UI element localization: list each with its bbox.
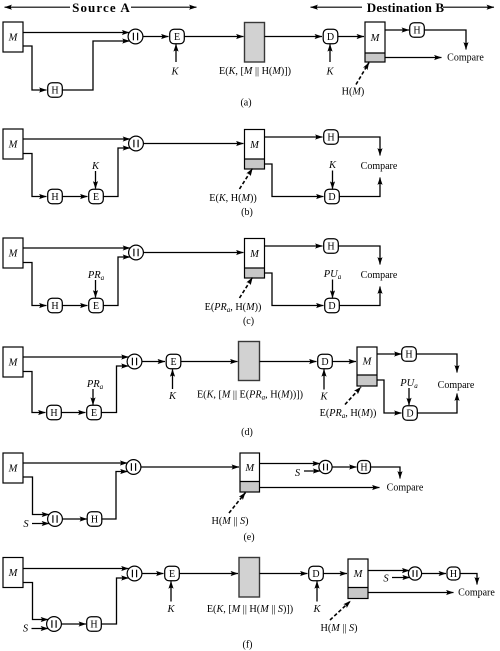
svg-text:Compare: Compare xyxy=(361,161,398,172)
wire concat to H (e) xyxy=(332,466,356,468)
svg-text:E: E xyxy=(170,357,176,368)
svg-text:D: D xyxy=(328,301,335,312)
wire H up to concat (e) xyxy=(102,472,128,520)
sign function E source (d) xyxy=(87,405,102,420)
svg-text:D: D xyxy=(321,357,328,368)
wire key to E (c) xyxy=(95,280,97,298)
wire K to D (a) xyxy=(329,44,331,62)
concatenation node upper (e) xyxy=(126,460,141,475)
svg-text:Destination B: Destination B xyxy=(367,0,445,15)
ciphertext block (f) xyxy=(239,558,260,598)
svg-text:H: H xyxy=(450,569,457,580)
svg-text:H: H xyxy=(413,25,420,36)
svg-text:E: E xyxy=(174,32,180,43)
wire E up to concat (b) xyxy=(103,148,130,197)
wire K to D (f) xyxy=(316,581,318,601)
wire H to compare (e) xyxy=(371,467,400,479)
wire M down to H (d) xyxy=(23,372,46,413)
wire M destination to H (d) xyxy=(377,353,402,355)
svg-text:K: K xyxy=(91,161,100,172)
wire ciphertext to D (a) xyxy=(265,36,323,38)
hash function H destination (c) xyxy=(324,239,339,254)
box M source (d) xyxy=(3,347,23,377)
box M destination with MAC field (c) xyxy=(245,239,265,279)
hash function H source (f) xyxy=(87,617,102,632)
decrypt function D destination (c) xyxy=(325,298,340,313)
svg-text:PRa: PRa xyxy=(86,379,104,391)
svg-text:Compare: Compare xyxy=(361,270,398,281)
concatenation node (c) xyxy=(129,245,144,260)
svg-text:E(K, [M || H(M || S)]): E(K, [M || H(M || S)]) xyxy=(207,604,293,615)
svg-text:H(M): H(M) xyxy=(342,87,365,98)
wire K to E (d) xyxy=(172,369,174,389)
wire H up to concat (a) xyxy=(62,41,130,90)
wire M destination to concat (e) xyxy=(260,463,320,465)
svg-text:Source A: Source A xyxy=(72,0,131,15)
wire E up to concat (c) xyxy=(103,257,130,306)
svg-text:M: M xyxy=(370,33,381,44)
svg-text:(a): (a) xyxy=(240,98,251,109)
svg-text:E(K, [M || H(M)]): E(K, [M || H(M)]) xyxy=(219,66,291,77)
box M destination with MAC field (b) xyxy=(245,130,265,170)
concatenation node destination (f) xyxy=(408,567,421,580)
concatenation node upper (f) xyxy=(127,566,142,581)
wire S to concat (e) xyxy=(304,470,320,472)
wire concat to M destination (e) xyxy=(141,466,240,468)
decrypt function D destination (b) xyxy=(325,189,340,204)
wire M to concat top (b) xyxy=(23,138,130,140)
wire hash field to compare (e) xyxy=(260,487,380,489)
wire M destination to H (a) xyxy=(385,29,409,31)
wire M down to concat (e) xyxy=(23,477,49,515)
box M source (f) xyxy=(3,558,23,588)
wire H to compare (a) xyxy=(424,30,466,50)
wire M destination to H (c) xyxy=(265,245,323,247)
svg-text:(b): (b) xyxy=(241,207,253,218)
svg-text:D: D xyxy=(312,569,319,580)
wire M down to H (c) xyxy=(23,263,47,306)
svg-text:M: M xyxy=(249,249,260,260)
wire H to compare (c) xyxy=(338,246,380,265)
svg-text:H: H xyxy=(51,192,58,203)
wire E up to concat (d) xyxy=(101,366,129,413)
wire M to concat top (c) xyxy=(23,247,130,249)
svg-text:PUa: PUa xyxy=(323,269,342,281)
header span arrow Source A xyxy=(5,6,197,8)
svg-text:M: M xyxy=(8,568,19,579)
wire MAC field to D (b) xyxy=(265,164,324,197)
wire H up to concat (f) xyxy=(101,578,129,624)
ciphertext block (d) xyxy=(239,342,260,381)
wire K to D (d) xyxy=(323,369,325,389)
svg-text:M: M xyxy=(8,358,19,369)
wire ciphertext to D (d) xyxy=(260,361,317,363)
svg-text:D: D xyxy=(328,192,335,203)
hash function H destination (e) xyxy=(358,461,371,474)
encrypt function E source (c) xyxy=(89,298,104,313)
hash function H source (c) xyxy=(48,298,63,313)
encrypt function E (f) xyxy=(165,566,180,581)
wire K to E (a) xyxy=(175,44,177,62)
header span arrow Destination B xyxy=(311,6,495,8)
svg-text:E: E xyxy=(93,192,99,203)
concatenation node lower (e) xyxy=(48,512,63,527)
wire hash field to compare (f) xyxy=(368,592,454,594)
wire M down to H (a) xyxy=(23,46,47,90)
svg-text:K: K xyxy=(312,604,321,615)
wire M down to H (b) xyxy=(23,154,47,197)
svg-text:M: M xyxy=(353,569,364,580)
encrypt function E outer (d) xyxy=(166,354,181,369)
box M source (a) xyxy=(3,22,23,52)
wire S to concat (e) xyxy=(32,523,49,525)
decrypt function D (d) xyxy=(318,354,333,369)
encrypt function E (a) xyxy=(170,29,185,44)
svg-text:M: M xyxy=(362,357,373,368)
svg-text:H: H xyxy=(327,132,334,143)
wire concat to E (a) xyxy=(143,36,169,38)
svg-text:E: E xyxy=(169,569,175,580)
wire E to ciphertext block (f) xyxy=(179,573,238,575)
wire key to D (c) xyxy=(332,280,334,298)
svg-text:E(PRa, H(M)): E(PRa, H(M)) xyxy=(205,302,262,314)
svg-text:M: M xyxy=(8,33,19,44)
encrypt function E source (b) xyxy=(89,189,104,204)
svg-text:(f): (f) xyxy=(243,640,253,651)
wire S to concat (f) xyxy=(32,628,49,630)
svg-text:(e): (e) xyxy=(243,532,254,543)
svg-text:K: K xyxy=(168,391,177,402)
svg-text:K: K xyxy=(325,67,334,78)
wire concat to M destination (b) xyxy=(143,143,244,145)
wire M destination to concat (f) xyxy=(368,570,409,572)
box M source (e) xyxy=(3,453,23,483)
dashed pointer to MAC field (c) xyxy=(240,278,253,299)
wire H to E (c) xyxy=(62,305,88,307)
box M destination with hash field (e) xyxy=(240,453,260,492)
svg-text:D: D xyxy=(406,408,413,419)
svg-text:M: M xyxy=(244,463,255,474)
svg-text:M: M xyxy=(8,464,19,475)
svg-text:H: H xyxy=(91,514,98,525)
concatenation node (a) xyxy=(128,29,143,44)
wire M to concat top (f) xyxy=(23,568,129,570)
concatenation node (b) xyxy=(129,136,144,151)
wire concat to H (e) xyxy=(62,518,87,520)
wire concat to E (f) xyxy=(142,573,164,575)
box M source (b) xyxy=(3,129,23,159)
wire key to D (b) xyxy=(332,171,334,189)
wire hash field to compare (a) xyxy=(385,57,442,59)
svg-text:Compare: Compare xyxy=(458,588,495,599)
svg-text:S: S xyxy=(23,624,29,635)
svg-text:K: K xyxy=(328,160,337,171)
wire key to E (b) xyxy=(95,171,97,189)
wire MAC field to D (c) xyxy=(265,273,324,306)
svg-text:(c): (c) xyxy=(243,316,254,327)
hash function H source (a) xyxy=(48,83,63,98)
wire E to ciphertext block (a) xyxy=(184,36,244,38)
hash function H destination (f) xyxy=(447,567,460,580)
svg-text:M: M xyxy=(8,140,19,151)
wire D to M destination (f) xyxy=(323,573,347,575)
svg-text:H: H xyxy=(51,85,58,96)
svg-text:H: H xyxy=(360,462,367,473)
wire H to compare (f) xyxy=(460,574,477,585)
dashed pointer to MAC field (b) xyxy=(240,169,253,190)
wire H to compare (b) xyxy=(338,137,380,156)
wire D to M destination (d) xyxy=(332,361,356,363)
svg-text:K: K xyxy=(166,604,175,615)
box M destination with hash field (a) xyxy=(365,22,385,62)
wire E to ciphertext block (d) xyxy=(181,361,238,363)
wire PRa to E (d) xyxy=(92,389,94,405)
svg-text:E: E xyxy=(91,408,97,419)
hash function H destination (b) xyxy=(324,130,339,145)
svg-text:K: K xyxy=(319,392,328,403)
svg-text:E(PRa, H(M)): E(PRa, H(M)) xyxy=(320,408,377,420)
wire PUa to D (d) xyxy=(408,388,410,405)
ciphertext block (a) xyxy=(245,23,265,63)
wire D to compare (c) xyxy=(339,287,380,306)
wire M destination to H (b) xyxy=(265,136,323,138)
wire M to concat top (d) xyxy=(23,356,129,358)
svg-text:S: S xyxy=(23,519,29,530)
wire concat to H (f) xyxy=(61,623,86,625)
svg-text:S: S xyxy=(295,468,301,479)
svg-text:K: K xyxy=(170,67,179,78)
svg-text:Compare: Compare xyxy=(438,380,475,391)
hash function H source (d) xyxy=(47,405,62,420)
svg-text:H(M || S): H(M || S) xyxy=(212,516,249,527)
wire M down to concat (f) xyxy=(23,583,48,620)
svg-text:(d): (d) xyxy=(241,427,253,438)
svg-text:H(M || S): H(M || S) xyxy=(321,623,358,634)
dashed pointer to signature field (d) xyxy=(345,387,361,405)
wire S to concat (f) xyxy=(392,577,410,579)
wire signature field to D (d) xyxy=(377,380,402,413)
box M destination with hash field (f) xyxy=(348,559,368,599)
dashed pointer to hash field (e) xyxy=(229,493,246,514)
wire M to concat top (a) xyxy=(23,32,129,34)
box M source (c) xyxy=(3,238,23,268)
wire H to E (d) xyxy=(61,412,86,414)
svg-text:M: M xyxy=(8,249,19,260)
svg-text:H: H xyxy=(51,301,58,312)
svg-text:E: E xyxy=(93,301,99,312)
wire concat to M destination (c) xyxy=(143,252,244,254)
verify function D destination (d) xyxy=(403,406,418,421)
hash function H destination (a) xyxy=(410,23,425,38)
dashed pointer to hash field (a) xyxy=(356,63,369,85)
concatenation node (d) xyxy=(127,354,142,369)
svg-text:Compare: Compare xyxy=(387,483,424,494)
wire H to compare (d) xyxy=(416,354,457,373)
svg-text:E(K, [M || E(PRa, H(M))]): E(K, [M || E(PRa, H(M))]) xyxy=(197,390,303,402)
svg-text:H: H xyxy=(405,349,412,360)
decrypt function D (a) xyxy=(323,29,338,44)
hash function H destination (d) xyxy=(402,347,417,362)
wire concat to H (f) xyxy=(422,573,446,575)
concatenation node destination (e) xyxy=(319,460,332,473)
svg-text:H: H xyxy=(90,619,97,630)
wire D to compare (d) xyxy=(417,394,457,414)
svg-text:H: H xyxy=(50,408,57,419)
svg-text:S: S xyxy=(383,574,389,585)
wire H to E (b) xyxy=(62,196,88,198)
wire K to E (f) xyxy=(170,581,172,601)
hash function H source (b) xyxy=(48,189,63,204)
wire ciphertext to D (f) xyxy=(260,573,308,575)
concatenation node lower (f) xyxy=(47,617,62,632)
svg-text:E(K, H(M)): E(K, H(M)) xyxy=(209,193,257,204)
box M destination with signature field (d) xyxy=(357,347,377,386)
dashed pointer to hash field (f) xyxy=(330,601,351,620)
svg-text:D: D xyxy=(327,32,334,43)
decrypt function D (f) xyxy=(309,566,324,581)
svg-text:H: H xyxy=(327,241,334,252)
svg-text:Compare: Compare xyxy=(447,53,484,64)
wire D to compare (b) xyxy=(339,178,380,197)
wire concat to E (d) xyxy=(142,361,166,363)
hash function H source (e) xyxy=(87,512,102,527)
svg-text:M: M xyxy=(249,140,260,151)
wire M to concat top (e) xyxy=(23,462,127,464)
wire D to M destination (a) xyxy=(338,36,365,38)
